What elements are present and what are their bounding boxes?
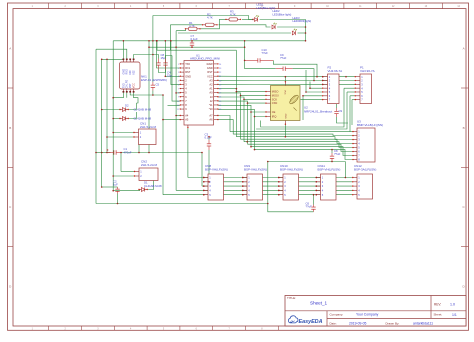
svg-text:2019-09-05: 2019-09-05 — [349, 322, 366, 326]
wire left bus x163 — [162, 95, 164, 195]
wire junction at 139,152.5 — [138, 152, 140, 154]
svg-text:*10: *10 — [209, 107, 213, 111]
wire arduino left feed 2 — [165, 75, 180, 77]
svg-text:470uF: 470uF — [124, 150, 132, 154]
svg-text:0.1uF: 0.1uF — [205, 136, 212, 140]
wire arduino left feed 6 — [168, 104, 181, 106]
wire junction at 346,76.7 — [345, 76, 347, 78]
wire junction at 107,59.3 — [106, 59, 108, 61]
svg-text:RST: RST — [207, 70, 213, 74]
wire LED3 feed rail — [178, 32, 291, 34]
svg-text:BSP-VH(LF)(SN): BSP-VH(LF)(SN) — [318, 168, 341, 172]
svg-text:A0: A0 — [209, 91, 213, 95]
wire junction at 107,152.5 — [106, 152, 108, 154]
wire caps top feed — [153, 55, 159, 59]
wire P2 pin7 feed — [301, 99, 323, 101]
svg-text:antarktida111: antarktida111 — [413, 322, 433, 326]
resistor R3 — [225, 9, 241, 21]
svg-text:VCC: VCC — [284, 90, 286, 95]
wire junction at 322.7,76.7 — [322, 76, 324, 78]
wire junction at 322.7,84.5 — [322, 84, 324, 86]
wire junction at 163,119.6 — [162, 119, 164, 121]
wire trunk x244 down — [244, 41, 246, 69]
wire junction at 316.3,186.1 — [316, 185, 318, 187]
wire bundle line4 — [241, 139, 354, 143]
wire C2 top — [102, 186, 118, 188]
wire P1 pin4 drop — [344, 87, 355, 89]
wire vertical x149 — [148, 41, 150, 47]
wire junction at 251,112 — [250, 111, 252, 113]
pin arduino bottom — [187, 125, 188, 128]
svg-text:Sheet_1: Sheet_1 — [310, 300, 328, 305]
wire A7 to bundle — [218, 116, 230, 132]
svg-text:Date:: Date: — [330, 321, 337, 325]
wire bundle line8 — [255, 150, 354, 160]
connector CN10 — [278, 174, 298, 200]
wire A3 rail to P1 pin2 — [218, 79, 355, 81]
wire R3 to LED1 junction — [242, 18, 253, 20]
wire connector rail 3 — [202, 185, 353, 187]
LED3 — [292, 16, 311, 35]
capacitor C7 — [190, 34, 198, 47]
connector CN2 ZH1.5-2A — [134, 168, 158, 181]
wire bundle drop 4 — [240, 95, 242, 139]
wire P1 pin5 vertical — [256, 92, 347, 129]
row labels A-D — [9, 47, 465, 289]
wire junction at 203.8,177.5 — [203, 177, 205, 179]
wire LED2 cathode — [277, 26, 305, 28]
svg-text:4.7K: 4.7K — [230, 12, 236, 16]
wire C2 vertical — [101, 153, 103, 188]
wire junction at 317,76.7 — [316, 76, 318, 78]
wire D11 to NRF CE — [218, 105, 266, 112]
wire rail y41 — [113, 40, 305, 42]
label CN2 — [141, 160, 158, 168]
capacitor C3 — [205, 133, 212, 150]
wire P2 pin6 vertical — [302, 96, 304, 120]
wire D3 anode feed — [113, 118, 120, 120]
wire vertical x157 — [156, 41, 158, 50]
connector CN11 — [316, 174, 336, 200]
wire C1 left — [96, 152, 111, 154]
wire junction at 345.4,177.5 — [345, 177, 347, 179]
wire junction at 113.2,190.7 — [112, 190, 114, 192]
wire junction at 314,80.5 — [313, 80, 315, 82]
wire cap C5 top link — [166, 56, 173, 59]
svg-text:MISO: MISO — [272, 90, 279, 94]
wire junction at 316.3,181.8 — [316, 181, 318, 183]
wire left bus x165 — [164, 41, 166, 76]
wire junction at 267.8,161.5 — [267, 161, 269, 163]
connector CN8 — [203, 174, 223, 200]
wire bundle drop 5 — [243, 99, 245, 141]
wire esp bottom pin3 — [130, 92, 163, 95]
svg-text:A4: A4 — [185, 114, 189, 118]
svg-text:C9: C9 — [339, 109, 343, 113]
wire junction at 244.6,40.8 — [244, 40, 246, 42]
label D1 — [144, 180, 162, 188]
svg-text:ZH1.5-2A M: ZH1.5-2A M — [140, 125, 157, 129]
label P2 — [328, 65, 343, 73]
wire bundle drop 8 — [254, 117, 256, 150]
wire junction at 113.2,176 — [112, 175, 114, 177]
wire bundle line5 — [244, 142, 353, 148]
antenna glyph inside U2 — [288, 94, 299, 111]
label CN11 — [318, 164, 341, 172]
wire rail y50 — [157, 49, 236, 51]
wire junction at 242.8,186.1 — [242, 185, 244, 187]
wire A1 to NRF MISO — [218, 88, 237, 90]
wire junction at 247.5,103.1 — [247, 102, 249, 104]
wire P2 pin5 vertical — [305, 70, 307, 92]
wire C1 right rail — [121, 152, 203, 154]
wire junction at 267.8,203.5 — [267, 203, 269, 205]
capacitor C4 — [163, 59, 172, 78]
wire C2 bottom — [117, 194, 119, 204]
svg-text:VCC: VCC — [133, 83, 136, 88]
wire junction at 242.8,190.4 — [242, 190, 244, 192]
svg-text:A: A — [463, 47, 465, 51]
wire cap C5 link — [152, 91, 154, 96]
wire esp pin1 feed — [102, 58, 124, 60]
svg-text:VH3.96-7A: VH3.96-7A — [328, 69, 343, 73]
wire esp bottom pin4 — [134, 92, 138, 103]
wire LED1 cathode bus — [260, 20, 306, 41]
wire junction at 305.5,40.8 — [305, 40, 307, 42]
wire C3 drop — [208, 150, 210, 182]
wire junction at 203.8,181.8 — [203, 181, 205, 183]
wire D3 cathode up — [129, 112, 137, 119]
wire junction at 278.8,190.4 — [278, 190, 280, 192]
wire junction at 152.9,95 — [152, 94, 154, 96]
svg-text:Sheet:: Sheet: — [434, 313, 443, 317]
wire esp bottom pin2 — [126, 92, 128, 98]
IC U2 NRF24L01 breakout — [265, 81, 300, 125]
wire arduino left feed 4 — [176, 92, 180, 94]
wire trunk x152 down — [152, 41, 154, 82]
wire arduino left feed 5 — [172, 56, 180, 102]
label CN9 — [244, 164, 267, 172]
svg-text:4.7K: 4.7K — [189, 24, 195, 28]
wire junction at 101.7,152.5 — [101, 152, 103, 154]
wire junction at 310,88.2 — [309, 87, 311, 89]
svg-text:IO2: IO2 — [133, 70, 136, 75]
svg-text:IRQ: IRQ — [272, 115, 277, 119]
wire junction at 176.1,92.9 — [175, 92, 177, 94]
wire junction at 236.4,88.7 — [236, 88, 238, 90]
wire junction at 113.2,132.5 — [112, 132, 114, 134]
wire junction at 278.8,177.5 — [278, 177, 280, 179]
wire bottom rail — [96, 203, 268, 205]
wire junction at 123.4,40.8 — [123, 40, 125, 42]
svg-text:A5: A5 — [185, 118, 189, 122]
label U3 — [357, 119, 383, 127]
wire cap C11 bottom — [337, 117, 349, 123]
wire junction at 303,95.8 — [302, 95, 304, 97]
wire rail1 left vertical — [187, 128, 189, 178]
wire R1 to R3 — [200, 19, 226, 28]
wire junction at 278.8,186.1 — [278, 185, 280, 187]
LED2 — [272, 9, 291, 29]
wire D13 to NRF SCK — [218, 97, 266, 99]
wire R2 feed — [170, 24, 202, 26]
wire arduino A5 feed — [163, 119, 180, 121]
svg-text:??uF: ??uF — [280, 56, 287, 60]
wire top rail to LED1 — [153, 16, 253, 20]
wire junction at 254.5,116.5 — [254, 116, 256, 118]
svg-text:CL41AB M-08: CL41AB M-08 — [144, 184, 162, 188]
wire junction at 203.8,186.1 — [203, 185, 205, 187]
svg-text:A6: A6 — [209, 118, 213, 122]
wire esp pin1 up — [122, 41, 124, 60]
capacitor C11 — [334, 108, 342, 117]
wire C9 left feed — [245, 68, 276, 70]
wire CN2 pin2 feed — [113, 175, 134, 177]
wire junction at 244,99.3 — [243, 99, 245, 101]
wire junction at 236.4,91.6 — [236, 91, 238, 93]
wire CN1 pin2 feed — [107, 136, 134, 138]
header P2 VH3.96-7A — [322, 74, 339, 104]
wire junction at 242.8,194.7 — [242, 194, 244, 196]
wire junction at 163,95 — [162, 94, 164, 96]
wire rail3 left vertical — [201, 153, 203, 187]
wire junction at 306,92 — [305, 91, 307, 93]
wire A0 to NRF MOSI — [218, 93, 266, 96]
svg-text:4.7K: 4.7K — [207, 15, 213, 19]
wire P1 pin5 feed — [347, 91, 355, 93]
wire junction x113 — [112, 98, 114, 133]
wire VCC rail to P1 pin1 — [218, 75, 355, 78]
svg-text:CSN: CSN — [272, 101, 278, 105]
wire junction at 251,146.7 — [250, 146, 252, 148]
svg-text:CE: CE — [272, 110, 276, 114]
wire A2 rail to P1 pin3 — [218, 83, 355, 85]
label NK1 — [141, 75, 167, 83]
wire connector rail 5 — [163, 194, 353, 196]
svg-text:ZH1.5-2A M: ZH1.5-2A M — [141, 163, 158, 167]
capacitor C2 — [113, 180, 120, 194]
wire arduino A4 feed — [176, 115, 180, 117]
wire junction at 209,181.8 — [208, 181, 210, 183]
label U1 — [190, 54, 220, 61]
wire junction at 101.7,187 — [101, 186, 103, 188]
wire junction at 332,161.5 — [331, 161, 333, 163]
wire C9 right elbow — [293, 69, 314, 81]
wire P2 pin4 vertical — [309, 82, 311, 89]
capacitor C6 — [306, 202, 316, 212]
svg-text:REV:: REV: — [434, 303, 441, 307]
wire R2 to LED2 — [219, 25, 271, 27]
connector CN1 ZH1.5-2A — [133, 129, 156, 145]
wire junction at 149,40.8 — [148, 40, 150, 42]
wire junction at 203.8,190.4 — [203, 190, 205, 192]
wire junction at 242.8,181.8 — [242, 181, 244, 183]
svg-text:??uF: ??uF — [334, 152, 341, 156]
svg-text:GND: GND — [207, 66, 213, 70]
wire vertical R2 branch — [169, 25, 171, 50]
capacitor C8 — [330, 149, 341, 162]
wire cap C4 bottom link — [159, 70, 166, 73]
wire CN1 drop — [138, 145, 140, 153]
svg-text:A3: A3 — [209, 78, 213, 82]
wire junction at 96,152.5 — [95, 152, 97, 154]
wire junction at 101.7,109.5 — [101, 109, 103, 111]
svg-text:Drawn By:: Drawn By: — [386, 321, 400, 325]
diode D1 — [138, 187, 148, 191]
wire vertical from top rail — [152, 16, 154, 42]
svg-text:??uF: ??uF — [306, 205, 313, 209]
wire left drop x101.5 — [101, 59, 103, 152]
capacitor C5 — [151, 82, 160, 91]
label P1 — [360, 65, 375, 73]
wire junction at 165.3,40.8 — [165, 40, 167, 42]
wire vertical R1 branch — [175, 31, 177, 48]
wire junction at 316.3,190.4 — [316, 190, 318, 192]
resistor R1 — [185, 21, 201, 30]
wire junction at 113.2,97.7 — [112, 97, 114, 99]
diode D2 — [119, 104, 129, 112]
svg-text:15p: 15p — [167, 74, 172, 78]
wire left drop x107 — [106, 59, 108, 152]
svg-text:BSP-VH(LF)(SN): BSP-VH(LF)(SN) — [280, 168, 303, 172]
svg-text:BSP-VH(LF)(SN): BSP-VH(LF)(SN) — [244, 168, 267, 172]
svg-text:TX0: TX0 — [185, 62, 190, 66]
wire junction at 305.5,33 — [305, 32, 307, 34]
wire left trunk x96 — [95, 49, 97, 203]
wire D2 cathode — [129, 103, 137, 110]
wire bundle drop 7 — [250, 112, 252, 147]
EasyEDA logo — [288, 316, 322, 325]
wire junction at 192,47.2 — [191, 46, 193, 48]
wire C10 right elbow — [273, 60, 317, 76]
wire C6 top link — [313, 195, 315, 205]
label CN12 — [354, 164, 376, 172]
wire connector rail 2 — [209, 181, 353, 183]
wire C3 top — [208, 137, 210, 140]
wire junction at 157,40.8 — [156, 40, 158, 42]
label CN8 — [205, 164, 228, 172]
svg-text:BMP-VH-8(LF)(SN): BMP-VH-8(LF)(SN) — [357, 123, 383, 127]
wire arduino left feed 3 — [171, 41, 180, 85]
capacitor C9 — [276, 53, 293, 71]
wire junction at 101.7,59.3 — [101, 59, 103, 61]
diode D3 — [119, 116, 129, 120]
svg-text:A1: A1 — [209, 87, 213, 91]
wire P1 pin6 feed — [350, 95, 355, 97]
svg-text:Company:: Company: — [330, 312, 344, 316]
wire junction at 305.5,27 — [305, 26, 307, 28]
wire bundle line6 — [248, 144, 354, 151]
wire junction at 152.9,40.8 — [152, 40, 154, 42]
svg-text:ARDUINO_PRO_MINI: ARDUINO_PRO_MINI — [190, 57, 220, 61]
wire arduino left feeds — [157, 41, 181, 68]
svg-text:LED0603(light): LED0603(light) — [293, 19, 312, 23]
wire P2 pin5 feed — [306, 91, 323, 93]
wire junction at 202,152.5 — [201, 152, 203, 154]
label CN10 — [280, 164, 303, 172]
wire junction at 170.9,40.8 — [170, 40, 172, 42]
wire junction at 316.3,194.7 — [316, 194, 318, 196]
module NK1 ESP-01 — [120, 59, 141, 93]
wire junction at 192,40.8 — [191, 40, 193, 42]
wire esp pin4 top — [134, 55, 153, 60]
wire P1 pin7 feed — [352, 99, 355, 101]
wire bottom U to C6 — [268, 204, 314, 212]
wire junction at 254.5,149.6 — [254, 149, 256, 151]
svg-text:D2: D2 — [125, 104, 129, 108]
wire bundle line3 — [236, 137, 353, 140]
wire junction at 152.9,54.5 — [152, 54, 154, 56]
wire bundle line1 — [230, 131, 353, 133]
wire trunk x236 down — [235, 50, 237, 137]
wire x236 to MISO — [236, 91, 266, 93]
header P1 VH3.96-7A — [355, 74, 372, 104]
svg-text:RX1: RX1 — [185, 66, 191, 70]
resistor R2 — [202, 12, 218, 26]
wire bundle line2 — [233, 134, 353, 135]
svg-text:MOSI: MOSI — [272, 93, 279, 97]
wire left drop x113 — [112, 41, 114, 191]
wire CN2 pin1 vertical — [120, 153, 122, 172]
wire P1 pin6 vertical — [349, 96, 351, 132]
svg-text:RST: RST — [185, 70, 191, 74]
wire x345 drop to CN12 — [344, 162, 346, 178]
connector CN9 — [242, 174, 262, 200]
svg-text:C5: C5 — [156, 83, 160, 87]
IC U1 ARDUINO_PRO_MINI — [177, 61, 222, 126]
svg-text:LED(Blue light): LED(Blue light) — [273, 12, 292, 16]
wire esp bottom pins down — [113, 92, 123, 98]
wire D1 cathode up — [148, 181, 154, 190]
wire junction at 244.6,47.2 — [244, 46, 246, 48]
title block texts — [287, 296, 457, 325]
wire junction at 285.4,136.7 — [285, 136, 287, 138]
wire junction at 165.3,76.3 — [165, 76, 167, 78]
wire LED3 cathode — [298, 32, 306, 34]
wire junction at 176.1,47.2 — [175, 46, 177, 48]
wire junction at 278.8,194.7 — [278, 194, 280, 196]
svg-text:SCK: SCK — [272, 97, 278, 101]
svg-text:1.0: 1.0 — [450, 303, 455, 307]
svg-text:1/1: 1/1 — [452, 313, 457, 317]
wire NRF VCC pin up — [284, 77, 286, 82]
wire A6 to bundle — [218, 120, 233, 135]
header U3 BMP-VH-8 — [352, 128, 375, 162]
connector CN12 — [352, 174, 372, 199]
wire bundle line7 — [251, 147, 353, 156]
svg-text:RAW: RAW — [207, 62, 214, 66]
svg-text:Your Company: Your Company — [356, 313, 379, 317]
wire left bus x176 — [175, 47, 177, 190]
wire CN1 pin1 feed — [113, 132, 134, 134]
svg-text:GND: GND — [286, 113, 288, 118]
wire junction at 316.3,177.5 — [316, 177, 318, 179]
svg-text:EasyEDA: EasyEDA — [299, 319, 323, 325]
wire P2 pin4 feed — [310, 87, 323, 89]
wire junction at 149,152.5 — [148, 152, 150, 154]
svg-text:BSP-VH(LF)(SN): BSP-VH(LF)(SN) — [205, 168, 228, 172]
wire junction at 322.7,80.4 — [322, 80, 324, 82]
wire P2 pin6 feed — [303, 95, 323, 97]
wire trunk x149 down — [148, 47, 150, 152]
svg-text:*11: *11 — [209, 103, 213, 107]
wire junction at 253,19.4 — [252, 19, 254, 21]
wire CN2 pin1 feed — [121, 171, 135, 173]
capacitor C1 470uF — [107, 147, 132, 155]
wire junction at 247.2,141.7 — [246, 141, 248, 143]
svg-text:A2: A2 — [209, 83, 213, 87]
wire connector rail 1 — [188, 177, 353, 179]
